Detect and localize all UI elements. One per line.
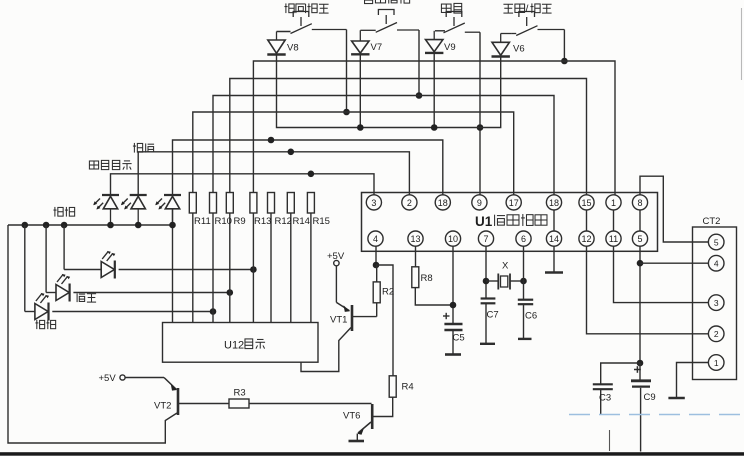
svg-text:V6: V6 [513, 44, 525, 55]
svg-text:U1: U1 [475, 214, 493, 229]
svg-text:R3: R3 [234, 388, 246, 399]
svg-text:R9: R9 [234, 216, 246, 227]
svg-text:C7: C7 [487, 310, 499, 321]
svg-text:13: 13 [410, 234, 420, 244]
svg-text:C6: C6 [525, 311, 537, 322]
svg-text:V9: V9 [444, 42, 456, 53]
svg-text:14: 14 [549, 234, 559, 244]
svg-text:VT6: VT6 [343, 411, 360, 422]
svg-text:V7: V7 [371, 42, 383, 53]
svg-text:R15: R15 [313, 216, 330, 227]
svg-text:5: 5 [637, 234, 642, 244]
svg-text:C3: C3 [599, 393, 611, 404]
svg-text:7: 7 [483, 234, 488, 244]
svg-text:1: 1 [611, 198, 616, 208]
svg-text:R12: R12 [275, 216, 292, 227]
svg-text:3: 3 [714, 298, 719, 308]
svg-text:18: 18 [549, 198, 559, 208]
svg-text:11: 11 [609, 234, 618, 244]
svg-text:+5V: +5V [99, 373, 117, 384]
svg-text:2: 2 [407, 198, 412, 208]
svg-text:4: 4 [373, 234, 378, 244]
svg-text:8: 8 [637, 198, 642, 208]
svg-text:+5V: +5V [327, 251, 345, 262]
svg-text:C5: C5 [453, 333, 465, 344]
svg-text:R11: R11 [194, 216, 211, 227]
svg-text:17: 17 [509, 198, 519, 208]
svg-text:R13: R13 [254, 216, 271, 227]
svg-text:R14: R14 [293, 216, 310, 227]
svg-text:3: 3 [371, 198, 376, 208]
svg-text:CT2: CT2 [703, 216, 721, 227]
svg-text:15: 15 [581, 198, 591, 208]
svg-text:5: 5 [714, 237, 719, 247]
svg-text:12: 12 [581, 234, 591, 244]
svg-text:R4: R4 [402, 382, 414, 393]
svg-text:R8: R8 [421, 273, 433, 284]
svg-text:6: 6 [521, 234, 526, 244]
svg-text:R10: R10 [215, 216, 232, 227]
svg-text:/: / [526, 3, 529, 15]
svg-text:9: 9 [477, 198, 482, 208]
svg-text:1: 1 [714, 358, 719, 368]
svg-text:U12: U12 [224, 340, 244, 352]
svg-text:18: 18 [438, 198, 448, 208]
svg-text:V8: V8 [287, 43, 299, 54]
svg-text:X: X [502, 261, 509, 272]
svg-text:C9: C9 [644, 392, 656, 403]
svg-text:VT2: VT2 [154, 401, 171, 412]
svg-text:10: 10 [448, 234, 458, 244]
svg-text:VT1: VT1 [330, 315, 347, 326]
svg-text:2: 2 [714, 329, 719, 339]
svg-text:4: 4 [714, 259, 719, 269]
